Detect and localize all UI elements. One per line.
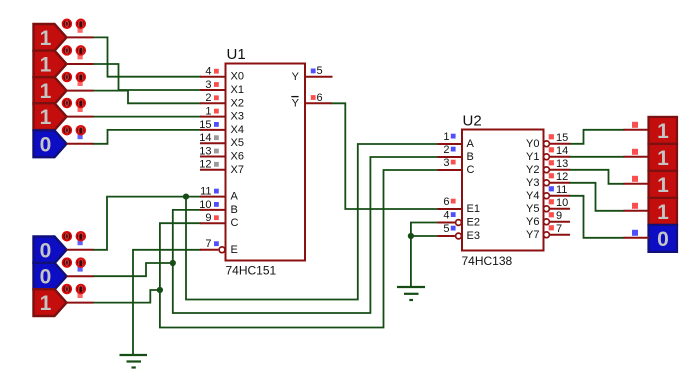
- svg-text:A: A: [467, 138, 475, 150]
- logic state input B1 (value 0): [34, 236, 67, 263]
- svg-text:3: 3: [205, 79, 211, 91]
- toggle buttons of B2: [63, 258, 86, 271]
- svg-text:4: 4: [205, 66, 211, 78]
- U2 pin 5 invert bubble: [456, 233, 462, 239]
- wire U2 pin E3 to ground junction: [411, 235, 438, 237]
- svg-text:E1: E1: [467, 203, 480, 215]
- U1 pin 12 (X7) stub: [200, 169, 226, 171]
- svg-text:3: 3: [443, 157, 449, 169]
- svg-text:U1: U1: [227, 46, 246, 63]
- U1 pin 9 (C) stub: [200, 222, 226, 224]
- svg-text:1: 1: [657, 147, 669, 170]
- svg-text:X6: X6: [231, 151, 244, 163]
- pin stub of P5: [624, 237, 650, 239]
- terminal stub of L2: [67, 63, 94, 65]
- svg-text:74HC151: 74HC151: [226, 264, 277, 278]
- pin stub of P4: [624, 210, 650, 212]
- terminal stub of B2: [67, 275, 94, 277]
- U1 pin 5 state square: [311, 69, 316, 74]
- toggle buttons of B1: [63, 232, 86, 245]
- U2 pin 15 invert bubble: [544, 141, 550, 147]
- svg-text:7: 7: [556, 223, 562, 235]
- U2 pin 10 state square: [549, 199, 554, 204]
- wire L1 to X0: [94, 37, 201, 76]
- svg-text:X3: X3: [231, 111, 244, 123]
- U2 pin 7 invert bubble: [544, 232, 550, 238]
- junction node C: [157, 287, 163, 293]
- U1 pin 10 state square: [214, 202, 219, 207]
- svg-text:C: C: [231, 217, 239, 229]
- svg-text:Y: Y: [292, 71, 300, 83]
- wire L5 to X4: [94, 130, 201, 144]
- U2 pin 11 (Y4) stub: [550, 195, 571, 197]
- U1 pin 7 invert bubble: [219, 247, 225, 253]
- toggle buttons of L2: [63, 46, 86, 59]
- logic state input L5 (value 0): [34, 130, 67, 157]
- svg-text:E3: E3: [467, 230, 480, 242]
- U1 pin 5 (Y) stub: [305, 76, 333, 78]
- logic state input L4 (value 1): [34, 103, 67, 130]
- U2 pin 9 invert bubble: [544, 219, 550, 225]
- svg-text:6: 6: [443, 196, 449, 208]
- svg-text:X0: X0: [231, 71, 244, 83]
- svg-text:1: 1: [40, 80, 52, 103]
- IC U2 74HC138 body: [462, 130, 544, 251]
- svg-text:Y2: Y2: [526, 164, 539, 176]
- U2 pin 9 state square: [549, 212, 554, 217]
- svg-text:0: 0: [40, 133, 52, 156]
- svg-text:X2: X2: [231, 97, 244, 109]
- logic probe P4 (value 1): [649, 198, 678, 225]
- terminal stub of B3: [67, 302, 94, 304]
- U1 pin 14 state square: [214, 135, 219, 140]
- svg-text:C: C: [467, 164, 475, 176]
- U1 pin 6 (Ybar) stub: [305, 102, 332, 104]
- svg-text:13: 13: [199, 145, 211, 157]
- wire U1 pin Ybar to U2 pin E1: [332, 103, 438, 209]
- terminal stub of B1: [67, 249, 94, 251]
- U2 pin 1 (A) stub: [438, 143, 463, 145]
- svg-text:A: A: [231, 191, 239, 203]
- U2 pin 13 (Y2) stub: [550, 169, 571, 171]
- svg-text:14: 14: [556, 145, 568, 157]
- U1 pin 11 state square: [214, 189, 219, 194]
- U2 pin 15 (Y0) stub: [550, 143, 571, 145]
- terminal stub of L1: [67, 36, 94, 38]
- wire net B: vertical trunk to U1 pin B and U2 pin B: [173, 157, 438, 313]
- U1 pin 1 state square: [214, 109, 219, 114]
- U2 pin 2 (B) stub: [438, 156, 463, 158]
- svg-text:1: 1: [657, 120, 669, 143]
- wire net A: branch down to U2 pin A: [186, 144, 438, 300]
- svg-text:1: 1: [40, 54, 52, 77]
- ground symbol (middle): [397, 287, 425, 300]
- svg-text:6: 6: [317, 92, 323, 104]
- U2 pin 3 (C) stub: [438, 169, 463, 171]
- U2 pin 6 state square: [451, 199, 456, 204]
- wire net C: state B3 to junction: [94, 290, 160, 303]
- svg-text:2: 2: [443, 144, 449, 156]
- logic state input L1 (value 1): [34, 24, 67, 51]
- U2 pin 9 (Y6) stub: [550, 221, 571, 223]
- state square of P4: [632, 203, 638, 209]
- svg-text:10: 10: [199, 199, 211, 211]
- svg-text:Y: Y: [292, 98, 300, 110]
- svg-text:1: 1: [40, 292, 52, 315]
- svg-text:0: 0: [657, 228, 669, 251]
- U1 pin 3 (X1) stub: [200, 89, 226, 91]
- U1 pin 12 state square: [214, 162, 219, 167]
- U1 pin 4 state square: [214, 69, 219, 74]
- U1 pin 7 state square: [214, 241, 219, 246]
- logic probe P2 (value 1): [649, 144, 678, 171]
- U2 pin 14 (Y1) stub: [550, 156, 571, 158]
- svg-text:Y7: Y7: [526, 229, 539, 241]
- U1 pin 13 state square: [214, 149, 219, 154]
- junction node B: [170, 260, 176, 266]
- wire net A: state B1 up to U1 pin A: [94, 197, 201, 250]
- wire Y3 to probe P4: [570, 183, 624, 211]
- U1 pin 10 (B) stub: [200, 209, 226, 211]
- toggle buttons of L5: [63, 126, 86, 139]
- svg-text:X5: X5: [231, 137, 244, 149]
- U1 pin 4 (X0) stub: [200, 76, 226, 78]
- logic state input L2 (value 1): [34, 51, 67, 78]
- toggle buttons of L3: [63, 73, 86, 86]
- U1 pin 11 (A) stub: [200, 196, 226, 198]
- logic state input B3 (value 1): [34, 289, 67, 316]
- pin stub of P2: [624, 156, 650, 158]
- wire U1 pin E to ground: [133, 250, 200, 355]
- state square of P3: [632, 176, 638, 182]
- U2 pin 4 (E2) stub: [438, 222, 455, 224]
- svg-text:9: 9: [205, 212, 211, 224]
- U2 pin 14 invert bubble: [544, 154, 550, 160]
- svg-text:13: 13: [556, 158, 568, 170]
- svg-text:1: 1: [40, 106, 52, 129]
- U2 pin 12 invert bubble: [544, 180, 550, 186]
- U2 pin 5 (E3) stub: [438, 235, 455, 237]
- svg-text:1: 1: [205, 106, 211, 118]
- U1 pin 6 state square: [311, 95, 316, 100]
- svg-text:4: 4: [443, 210, 449, 222]
- terminal stub of L3: [67, 90, 94, 92]
- U2 pin 15 state square: [549, 134, 554, 139]
- svg-text:5: 5: [443, 223, 449, 235]
- svg-text:B: B: [467, 151, 474, 163]
- svg-text:1: 1: [443, 131, 449, 143]
- U2 pin 13 invert bubble: [544, 167, 550, 173]
- logic probe P3 (value 1): [649, 171, 678, 198]
- svg-text:10: 10: [556, 197, 568, 209]
- U2 pin 11 invert bubble: [544, 193, 550, 199]
- svg-text:B: B: [231, 204, 238, 216]
- terminal stub of L4: [67, 116, 94, 118]
- U1 pin 2 state square: [214, 95, 219, 100]
- U2 pin 10 (Y5) stub: [550, 208, 571, 210]
- svg-text:Y1: Y1: [526, 151, 539, 163]
- wire net B: state B2 to junction: [94, 263, 173, 276]
- junction node A: [183, 194, 189, 200]
- U2 pin 1 state square: [451, 134, 456, 139]
- wire Y2 to probe P3: [570, 170, 624, 184]
- svg-text:X7: X7: [231, 164, 244, 176]
- U2 pin 10 invert bubble: [544, 206, 550, 212]
- U2 pin 4 invert bubble: [456, 220, 462, 226]
- U1 pin 3 state square: [214, 82, 219, 87]
- toggle buttons of B3: [63, 285, 86, 298]
- wire Y1 to probe P2: [570, 156, 624, 158]
- U1 pin 15 (X4) stub: [200, 129, 226, 131]
- terminal stub of L5: [67, 143, 94, 145]
- wire L3 to X2: [94, 91, 201, 104]
- wire L2 to X1: [94, 64, 201, 90]
- svg-text:0: 0: [40, 266, 52, 289]
- svg-text:7: 7: [205, 238, 211, 250]
- state square of P1: [632, 122, 638, 128]
- svg-text:12: 12: [556, 171, 568, 183]
- svg-text:74HC138: 74HC138: [462, 254, 513, 268]
- svg-text:15: 15: [556, 132, 568, 144]
- logic state input L3 (value 1): [34, 77, 67, 104]
- svg-text:5: 5: [317, 65, 323, 77]
- U2 pin 5 state square: [451, 226, 456, 231]
- wire L4 to X3: [94, 116, 201, 118]
- svg-text:Y3: Y3: [526, 177, 539, 189]
- logic probe P1 (value 1): [649, 117, 678, 144]
- U1 pin 7 (E) stub: [200, 249, 218, 251]
- U2 pin 2 state square: [451, 147, 456, 152]
- toggle buttons of L4: [63, 99, 86, 112]
- svg-text:15: 15: [199, 119, 211, 131]
- U1 pin 1 (X3) stub: [200, 116, 226, 118]
- U2 pin 13 state square: [549, 160, 554, 165]
- wire U2 pin E2 to ground junction: [411, 223, 438, 237]
- svg-text:Y6: Y6: [526, 216, 539, 228]
- U2 pin 14 state square: [549, 147, 554, 152]
- svg-text:1: 1: [40, 27, 52, 50]
- wire net C: vertical trunk to U1 pin C and U2 pin C: [160, 170, 438, 328]
- toggle buttons of L1: [63, 19, 86, 32]
- svg-text:E2: E2: [467, 217, 480, 229]
- junction node E23: [408, 233, 414, 239]
- U1 pin 2 (X2) stub: [200, 102, 226, 104]
- svg-text:X4: X4: [231, 124, 244, 136]
- ground symbol (left): [120, 355, 148, 368]
- IC U1 74HC151 body: [226, 64, 306, 261]
- svg-text:14: 14: [199, 132, 211, 144]
- U2 pin 7 (Y7) stub: [550, 234, 571, 236]
- svg-text:0: 0: [40, 239, 52, 262]
- svg-text:1: 1: [657, 201, 669, 224]
- svg-text:12: 12: [199, 159, 211, 171]
- svg-text:11: 11: [200, 186, 211, 198]
- svg-text:1: 1: [657, 174, 669, 197]
- svg-text:Y0: Y0: [526, 138, 539, 150]
- U2 pin 12 state square: [549, 173, 554, 178]
- U2 pin 6 (E1) stub: [438, 208, 463, 210]
- logic state input B2 (value 0): [34, 263, 67, 290]
- pin stub of P3: [624, 183, 650, 185]
- U2 pin 7 state square: [549, 225, 554, 230]
- U1 pin 13 (X6) stub: [200, 156, 226, 158]
- U2 pin 12 (Y3) stub: [550, 182, 571, 184]
- U1 pin 9 state square: [214, 215, 219, 220]
- U2 pin 4 state square: [451, 212, 456, 217]
- svg-text:E: E: [231, 244, 238, 256]
- svg-text:X1: X1: [231, 84, 244, 96]
- svg-text:U2: U2: [463, 112, 482, 129]
- U2 pin 3 state square: [451, 160, 456, 165]
- svg-text:Y5: Y5: [526, 203, 539, 215]
- svg-text:9: 9: [556, 210, 562, 222]
- wire Y0 to probe P1: [570, 130, 624, 144]
- wire Y4 to probe P5: [570, 196, 624, 238]
- svg-text:2: 2: [205, 92, 211, 104]
- U1 pin 14 (X5) stub: [200, 142, 226, 144]
- state square of P5: [632, 230, 638, 236]
- state square of P2: [632, 149, 638, 155]
- wire ground junction down: [410, 236, 412, 286]
- svg-text:11: 11: [556, 184, 567, 196]
- U1 pin 15 state square: [214, 122, 219, 127]
- pin stub of P1: [624, 129, 650, 131]
- logic probe P5 (value 0): [649, 225, 678, 252]
- svg-text:Y4: Y4: [526, 190, 539, 202]
- U2 pin 11 state square: [549, 186, 554, 191]
